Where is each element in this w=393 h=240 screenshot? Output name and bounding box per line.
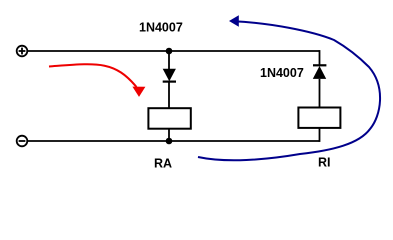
terminal + (positive)	[17, 46, 28, 57]
wire bottom rail	[27, 140, 319, 142]
svg-text:1N4007: 1N4007	[260, 66, 304, 80]
diode D1 1N4007 (cathode down)	[163, 69, 176, 82]
wire right branch from top rail	[319, 50, 321, 65]
wire D1 cathode to RA	[168, 82, 170, 109]
svg-text:RA: RA	[154, 157, 172, 171]
terminal - (negative)	[17, 136, 28, 147]
resistor RA	[148, 108, 190, 129]
resistor RI	[298, 108, 340, 128]
wire diode D1 anode	[168, 51, 170, 69]
node junction top (branch RA)	[166, 48, 173, 55]
diode D2 1N4007 (cathode up)	[313, 65, 327, 79]
svg-text:RI: RI	[318, 155, 331, 169]
wire D2 anode to RI	[319, 79, 321, 108]
wire top rail	[27, 50, 319, 52]
wire RI to bottom rail	[319, 128, 321, 142]
red current arrow (into RA branch)	[49, 64, 145, 97]
svg-text:1N4007: 1N4007	[139, 21, 183, 35]
blue loop arrow (return path)	[198, 15, 380, 160]
node junction bottom (branch RA)	[166, 138, 173, 145]
wire RA to bottom rail	[168, 129, 170, 141]
